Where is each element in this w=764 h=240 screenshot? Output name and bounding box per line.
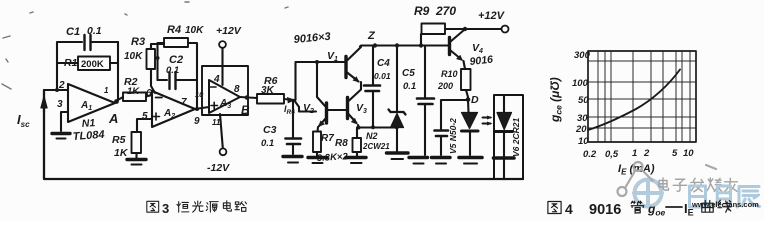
caption char 路 bbox=[235, 202, 246, 212]
svg-text:0.2: 0.2 bbox=[583, 149, 597, 160]
caption char 图 (fig4) bbox=[548, 202, 561, 214]
ground (C3) bbox=[283, 155, 302, 158]
svg-text:R7: R7 bbox=[321, 133, 334, 144]
svg-text:200: 200 bbox=[437, 81, 453, 91]
svg-text:9016: 9016 bbox=[469, 54, 494, 68]
watermark gray text dian zi fa shao you bbox=[659, 178, 737, 192]
svg-text:0.1: 0.1 bbox=[87, 25, 102, 37]
svg-text:3: 3 bbox=[57, 99, 63, 110]
op-amp A1 bbox=[68, 84, 115, 122]
svg-text:11: 11 bbox=[212, 118, 221, 127]
-12V terminal (A3) bbox=[220, 114, 223, 148]
photocell V6 box bbox=[494, 95, 523, 179]
svg-text:5: 5 bbox=[142, 111, 148, 122]
caption char 源 bbox=[206, 202, 218, 213]
caption char 恒 bbox=[177, 202, 189, 213]
wire A2 out to A3 bbox=[195, 107, 209, 109]
svg-text:0.1: 0.1 bbox=[261, 138, 274, 149]
svg-text:C1: C1 bbox=[66, 26, 80, 38]
caption char 管 bbox=[631, 201, 644, 213]
svg-text:V6 2CR21: V6 2CR21 bbox=[511, 118, 521, 157]
capacitor C2 bbox=[158, 79, 168, 81]
svg-text:4: 4 bbox=[213, 74, 220, 85]
svg-text:10: 10 bbox=[683, 148, 694, 159]
wire +12V rail bbox=[445, 28, 501, 30]
wire V3 emitter rail bbox=[359, 126, 398, 128]
resistor R9 bbox=[420, 34, 422, 46]
svg-text:2: 2 bbox=[58, 80, 65, 91]
svg-text:5: 5 bbox=[672, 148, 678, 159]
ground (C5) bbox=[409, 156, 428, 159]
svg-text:R8: R8 bbox=[335, 138, 348, 149]
svg-text:9016: 9016 bbox=[589, 202, 621, 218]
wire pin3 stub bbox=[61, 112, 68, 131]
graph grid vertical bbox=[598, 51, 690, 142]
resistor R2 bbox=[116, 97, 123, 101]
svg-text:0.01: 0.01 bbox=[374, 71, 391, 81]
svg-text:50: 50 bbox=[578, 95, 589, 106]
caption char 线 bbox=[718, 200, 731, 212]
graph curve gce vs IE bbox=[588, 70, 680, 131]
svg-text:R4: R4 bbox=[167, 24, 181, 36]
resistor R6 bbox=[257, 94, 284, 104]
svg-text:R5: R5 bbox=[112, 134, 126, 146]
watermark blue text ri yue chen bbox=[690, 186, 760, 208]
svg-text:A1: A1 bbox=[80, 100, 92, 112]
capacitor C3 bbox=[292, 100, 294, 137]
transistor V4 bbox=[448, 38, 451, 55]
caption dash bbox=[666, 206, 682, 208]
svg-text:6: 6 bbox=[146, 88, 152, 99]
caption fig3 bbox=[147, 201, 247, 216]
svg-text:7: 7 bbox=[181, 97, 187, 108]
resistor R1 bbox=[57, 62, 78, 64]
capacitor at D bbox=[441, 100, 468, 129]
svg-text:2CW21: 2CW21 bbox=[362, 142, 390, 151]
resistor R10 bbox=[464, 61, 466, 69]
wire outer loop left and bottom bbox=[44, 90, 523, 179]
svg-text:A2: A2 bbox=[163, 108, 175, 120]
svg-text:2: 2 bbox=[643, 148, 650, 159]
graph grid horizontal bbox=[588, 61, 696, 128]
+12V terminal (right) bbox=[502, 26, 509, 33]
svg-text:D: D bbox=[471, 94, 479, 106]
node Isc input arrow bbox=[43, 98, 45, 112]
graph frame bbox=[588, 51, 696, 142]
svg-text:100: 100 bbox=[572, 78, 589, 89]
svg-text:3K: 3K bbox=[261, 85, 275, 96]
svg-text:1K: 1K bbox=[114, 147, 129, 159]
svg-text:R9: R9 bbox=[414, 4, 430, 18]
transistor V2 bbox=[317, 62, 325, 106]
svg-text:4: 4 bbox=[565, 201, 573, 217]
svg-text:0.1: 0.1 bbox=[166, 65, 179, 76]
svg-text:A3: A3 bbox=[219, 98, 231, 110]
svg-text:R3: R3 bbox=[131, 36, 145, 48]
svg-text:N2: N2 bbox=[366, 131, 378, 141]
svg-text:10: 10 bbox=[195, 90, 204, 99]
transistor V1 bbox=[344, 57, 347, 78]
svg-text:+12V: +12V bbox=[216, 25, 242, 37]
capacitor C5 bbox=[424, 46, 426, 98]
ground (R7) bbox=[308, 156, 327, 159]
svg-text:N1: N1 bbox=[81, 117, 95, 130]
caption char 图 (fig3) bbox=[147, 201, 159, 212]
ground (R8) bbox=[346, 156, 366, 159]
svg-text:Isc: Isc bbox=[17, 112, 30, 129]
op-amp A2 bbox=[152, 91, 195, 127]
svg-text:TL084: TL084 bbox=[72, 129, 105, 143]
ground (N2) bbox=[387, 151, 409, 154]
caption char 电 bbox=[223, 201, 231, 211]
wire riser to L1 bbox=[296, 62, 346, 100]
light coupling arrows bbox=[483, 118, 491, 124]
svg-text:10K: 10K bbox=[124, 51, 143, 62]
svg-text:30: 30 bbox=[577, 113, 588, 124]
svg-text:270: 270 bbox=[435, 4, 456, 18]
wire R4 right riser to A2 output bbox=[188, 43, 197, 109]
wire pin2 of A1 bbox=[44, 89, 68, 91]
resistor R8 bbox=[356, 128, 358, 139]
svg-text:1K: 1K bbox=[127, 86, 140, 97]
wire feedback right riser bbox=[117, 42, 119, 100]
ground (pin3 A1) bbox=[52, 132, 70, 135]
svg-text:10: 10 bbox=[578, 136, 589, 147]
svg-text:9016×3: 9016×3 bbox=[293, 31, 331, 46]
capacitor C1 bbox=[83, 35, 85, 50]
wire V2 base feed bbox=[294, 100, 316, 112]
op-amp A3 follower box bbox=[202, 66, 248, 115]
svg-text:V2: V2 bbox=[303, 102, 314, 115]
svg-text:200K: 200K bbox=[81, 59, 104, 70]
svg-text:0.1: 0.1 bbox=[403, 81, 416, 92]
wire feedback left riser bbox=[57, 42, 82, 90]
svg-text:R1: R1 bbox=[64, 57, 78, 69]
node B bbox=[240, 97, 257, 98]
transistor V3 bbox=[346, 98, 349, 119]
svg-text:V5 N50-2: V5 N50-2 bbox=[448, 118, 458, 154]
svg-text:20: 20 bbox=[575, 124, 587, 135]
svg-text:C4: C4 bbox=[377, 58, 390, 69]
node D bbox=[466, 97, 471, 102]
+12V terminal (A3) bbox=[219, 41, 226, 48]
watermark logo bbox=[618, 162, 717, 207]
wire pin5 to R5 bbox=[137, 119, 152, 132]
caption char 曲 bbox=[702, 201, 713, 213]
svg-text:10K: 10K bbox=[185, 25, 204, 36]
svg-text:8: 8 bbox=[234, 84, 240, 95]
svg-text:9: 9 bbox=[194, 116, 200, 127]
svg-text:B: B bbox=[241, 103, 250, 117]
svg-text:0,5: 0,5 bbox=[605, 149, 619, 160]
svg-text:+12V: +12V bbox=[478, 10, 506, 22]
svg-text:1: 1 bbox=[104, 86, 109, 95]
caption char 光 bbox=[193, 201, 204, 212]
LED V5 bbox=[467, 100, 470, 112]
zener diode N2 bbox=[396, 46, 398, 112]
caption fig4 bbox=[548, 200, 731, 218]
svg-text:3: 3 bbox=[162, 201, 169, 216]
ground (R5) bbox=[127, 158, 146, 161]
svg-text:gce (μƱ): gce (μƱ) bbox=[548, 77, 564, 123]
node A bbox=[114, 99, 119, 104]
svg-text:C5: C5 bbox=[402, 68, 415, 79]
wire V3 base bbox=[328, 109, 347, 111]
ground (cap D) bbox=[432, 156, 451, 159]
svg-text:-12V: -12V bbox=[207, 162, 230, 174]
resistor R7 bbox=[313, 132, 321, 153]
svg-text:1: 1 bbox=[632, 148, 637, 159]
svg-text:A: A bbox=[108, 111, 118, 126]
paper specks bbox=[2, 2, 288, 89]
svg-text:R10: R10 bbox=[441, 69, 458, 79]
wire Z top rail bbox=[360, 46, 449, 47]
svg-text:C3: C3 bbox=[263, 124, 277, 136]
resistor R5 bbox=[132, 132, 142, 153]
svg-text:V4: V4 bbox=[472, 42, 483, 55]
ground (V5) bbox=[459, 156, 482, 160]
svg-text:Z: Z bbox=[367, 30, 376, 42]
capacitor C4 bbox=[372, 46, 374, 85]
resistor R3 bbox=[147, 49, 156, 69]
svg-text:300: 300 bbox=[574, 50, 591, 61]
resistor R4 bbox=[164, 38, 188, 47]
svg-text:V3: V3 bbox=[356, 102, 367, 115]
photocell V6 bbox=[503, 96, 505, 112]
